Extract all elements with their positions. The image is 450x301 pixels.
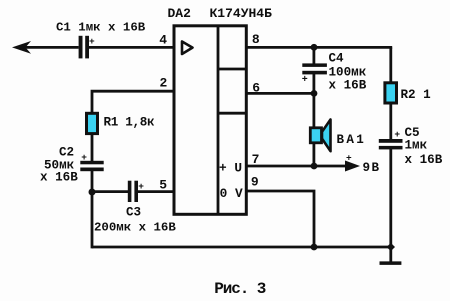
svg-text:R2 1: R2 1 [401, 88, 432, 102]
bottom rail wire [92, 246, 391, 249]
svg-text:4: 4 [159, 32, 167, 47]
svg-text:R1 1,8к: R1 1,8к [104, 116, 156, 130]
capacitor C2 [80, 161, 103, 165]
svg-text:8: 8 [252, 32, 260, 47]
svg-text:C1 1мк х 16В: C1 1мк х 16В [56, 21, 146, 35]
svg-text:+: + [394, 129, 400, 140]
svg-text:C4: C4 [329, 52, 345, 66]
capacitor C5 [379, 139, 403, 143]
svg-text:0 V: 0 V [220, 186, 243, 201]
node pin9/rail [311, 244, 318, 251]
capacitor C3 [128, 181, 132, 202]
svg-text:К174УН4Б: К174УН4Б [210, 6, 273, 21]
svg-text:200мк х 16В: 200мк х 16В [94, 221, 176, 235]
wire to C4 [312, 47, 315, 65]
svg-text:DA2: DA2 [168, 6, 192, 21]
svg-text:х 16В: х 16В [405, 153, 443, 167]
capacitor C1 [79, 36, 83, 59]
resistor R2 [385, 83, 397, 103]
node pin7/speaker [311, 163, 318, 170]
svg-text:х 16В: х 16В [40, 171, 78, 185]
svg-text:C3: C3 [126, 206, 141, 220]
wire C5 down to rail [389, 148, 392, 247]
wire C4 to pin 6 node [312, 73, 315, 93]
svg-text:+: + [81, 152, 87, 163]
wire node to speaker [312, 93, 315, 166]
wire R2 to C5 [389, 104, 392, 141]
resistor R1 [87, 113, 98, 133]
svg-text:Рис. 3: Рис. 3 [214, 280, 266, 298]
wire pin 2 to R1 [92, 91, 174, 113]
wire C2 to bottom rail [91, 171, 94, 248]
svg-text:9В: 9В [363, 161, 381, 175]
svg-text:+ U: + U [219, 160, 242, 175]
wire R1 to C2 [91, 134, 94, 163]
svg-text:+: + [302, 75, 308, 86]
svg-text:2: 2 [160, 76, 168, 91]
amplifier triangle [182, 42, 193, 55]
svg-text:+: + [346, 153, 352, 164]
wire pin 6 [246, 92, 314, 95]
ground [389, 247, 392, 262]
node C4 top [311, 44, 318, 51]
svg-text:ВА1: ВА1 [337, 133, 367, 147]
node rail/ground [387, 243, 395, 251]
wire input to C1 [18, 46, 79, 49]
svg-text:5: 5 [159, 177, 167, 192]
wire pin 7 to 9V arrow [246, 165, 350, 168]
op-amp U DA2 box [174, 26, 246, 215]
wire pin 8 to right branch [246, 46, 392, 49]
svg-text:C2: C2 [59, 146, 74, 160]
wire C1 to pin 4 [89, 46, 174, 49]
9V arrow [345, 161, 360, 172]
svg-text:+: + [89, 36, 95, 47]
svg-text:х 16В: х 16В [329, 79, 367, 93]
node junction C2/C3 [89, 189, 96, 196]
wire C3 to pin 5 [138, 190, 174, 193]
wire pin 9 down [246, 191, 314, 247]
svg-text:9: 9 [251, 175, 259, 190]
capacitor C4 [302, 63, 327, 67]
input arrow [12, 41, 31, 54]
svg-text:100мк: 100мк [329, 66, 367, 80]
speaker BA1 [310, 128, 321, 143]
svg-text:1мк: 1мк [405, 139, 428, 153]
node pin6/C4 [311, 90, 318, 97]
wire junction to C3 [92, 190, 129, 193]
right branch down to R2 [389, 47, 392, 83]
